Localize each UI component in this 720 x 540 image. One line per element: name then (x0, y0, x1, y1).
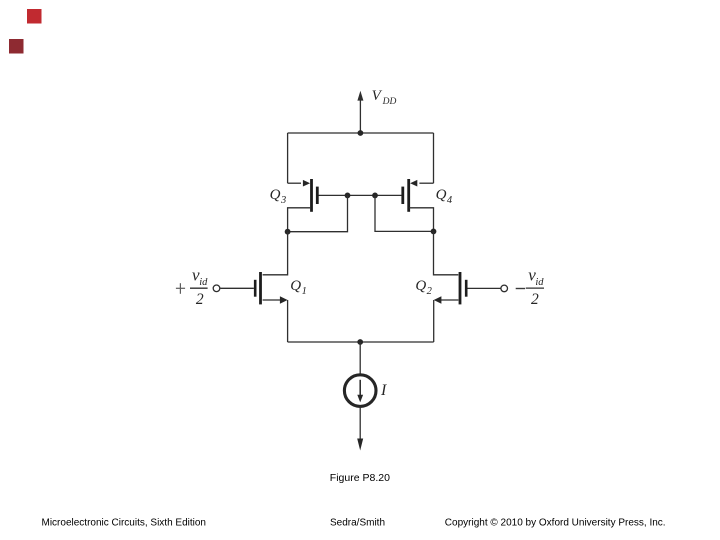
power VDD arrow (357, 91, 363, 133)
node: VDD rail junction (358, 130, 364, 136)
transistor Q1 (NMOS) (220, 272, 287, 304)
label Q4 (436, 187, 453, 206)
svg-text:1: 1 (302, 286, 307, 297)
label -vid/2 right (516, 266, 545, 308)
red square decoration top (27, 9, 42, 24)
label +vid/2 left (176, 266, 208, 308)
svg-text:2: 2 (427, 286, 433, 297)
svg-text:Q: Q (436, 187, 447, 203)
svg-text:2: 2 (531, 291, 539, 308)
svg-text:Microelectronic Circuits, Sixt: Microelectronic Circuits, Sixth Edition (42, 517, 207, 528)
wire: current source to negative supply arrow (357, 406, 363, 450)
label Q3 (270, 187, 287, 206)
svg-text:2: 2 (196, 291, 204, 308)
label VDD (372, 88, 397, 107)
svg-text:4: 4 (447, 195, 453, 206)
wire: tail rail (288, 341, 434, 343)
wire: Q1 drain riser (263, 232, 288, 275)
wire: Q2 drain riser (434, 231, 459, 274)
svg-text:id: id (199, 277, 208, 288)
label Q2 (415, 278, 432, 297)
transistor Q4 (PMOS) (401, 179, 433, 231)
node: tail junction (357, 339, 363, 345)
input terminal right (501, 285, 508, 292)
wire: right riser rail to Q4 source (433, 133, 435, 183)
svg-text:Figure P8.20: Figure P8.20 (330, 472, 390, 484)
svg-text:Q: Q (290, 278, 301, 294)
node: gate bus left junction (345, 193, 351, 199)
red square decoration lower-left (9, 39, 24, 54)
svg-text:I: I (380, 382, 387, 399)
wire: tail to current source (359, 342, 361, 375)
node: gate bus right junction (372, 193, 378, 199)
node: left drain junction (285, 229, 291, 235)
svg-text:Q: Q (415, 278, 426, 294)
node: right drain junction (431, 229, 437, 235)
wire: Q3 gate-drain tie (288, 195, 348, 231)
svg-text:DD: DD (382, 97, 397, 107)
wire: top supply rail (288, 132, 434, 134)
svg-text:id: id (535, 277, 544, 288)
wire: gate bus Q3-Q4 (319, 194, 402, 196)
label Q1 (290, 278, 307, 297)
wire: Q2 source drop (433, 300, 435, 342)
current source I (344, 375, 376, 407)
input terminal left (213, 285, 220, 292)
transistor Q2 (NMOS) (434, 272, 501, 304)
svg-text:3: 3 (280, 195, 286, 206)
wire: Q1 source drop (287, 300, 289, 342)
wire: left riser rail to Q3 source (287, 133, 289, 183)
svg-text:Copyright © 2010 by Oxford Uni: Copyright © 2010 by Oxford University Pr… (445, 517, 666, 528)
svg-text:Sedra/Smith: Sedra/Smith (330, 517, 385, 528)
svg-text:Q: Q (270, 187, 281, 203)
transistor Q3 (PMOS) (288, 179, 319, 232)
wire: Q4 gate-drain tie (375, 195, 434, 231)
